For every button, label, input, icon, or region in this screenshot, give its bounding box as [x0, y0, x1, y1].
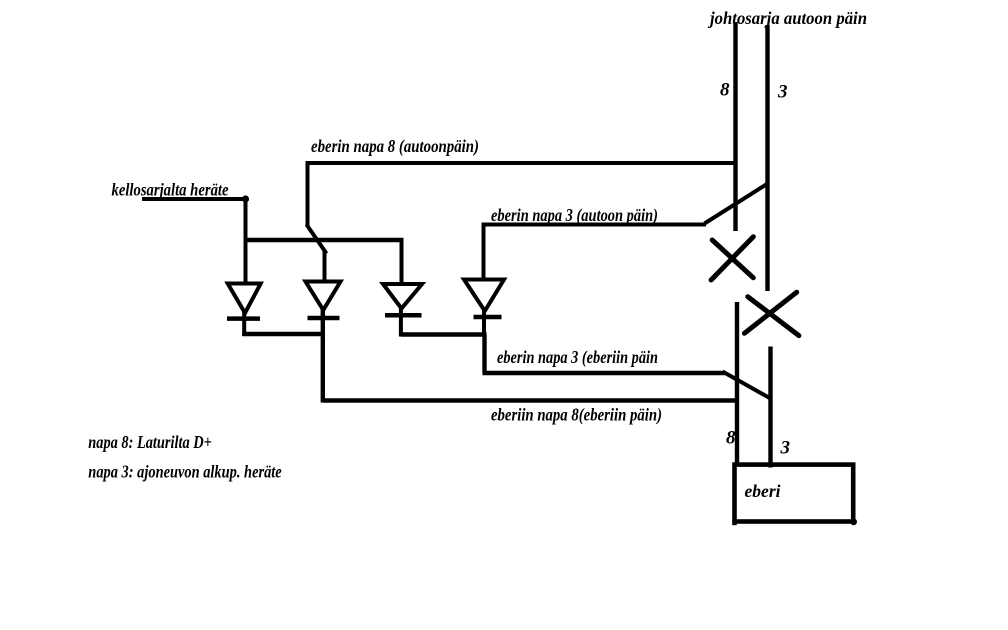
wire: pin 8 vertical lower segment [735, 302, 739, 466]
box corner nub bottom-left [732, 521, 736, 525]
wire: eberin napa 3 autoon horizontal [484, 223, 707, 227]
svg-text:8: 8 [726, 428, 736, 449]
svg-text:johtosarja autoon päin: johtosarja autoon päin [707, 8, 867, 28]
box: eberi heater unit [735, 465, 854, 522]
svg-text:napa 3: ajoneuvon alkup. herät: napa 3: ajoneuvon alkup. heräte [88, 462, 281, 482]
diode D1 cathode bar [227, 316, 260, 321]
wire: eberin napa 3 eberiin horizontal [483, 371, 726, 375]
wire: vertical from D4 link down to napa3 eberiin wire [482, 335, 486, 374]
diode D2 triangle [306, 282, 341, 311]
wire: switch diagonal up to pin 3 line [705, 183, 769, 224]
diode D3 triangle [383, 284, 422, 309]
svg-text:3: 3 [780, 438, 791, 459]
wire: diode D4 anode lead [482, 223, 486, 281]
diode D2 cathode bar [308, 316, 340, 321]
svg-text:napa 8: Laturilta D+: napa 8: Laturilta D+ [88, 432, 212, 452]
svg-text:eberin napa 8 (autoonpäin): eberin napa 8 (autoonpäin) [311, 136, 479, 157]
wire: switch diagonal down to pin 3 lower line [723, 372, 771, 399]
svg-text:eberin napa 3 (eberiin päin: eberin napa 3 (eberiin päin [497, 347, 658, 368]
wire: anode bus horizontal [244, 238, 404, 242]
svg-text:eberiin napa 8(eberiin päin): eberiin napa 8(eberiin päin) [491, 405, 662, 426]
diode D4 cathode bar [474, 315, 502, 320]
diode D2 cathode lead down to napa8 eberiin wire [321, 308, 325, 403]
diode D1 cathode lead [242, 311, 246, 336]
box corner blob bottom-right [850, 518, 857, 525]
svg-text:eberi: eberi [745, 481, 781, 501]
diode D1 triangle [228, 284, 261, 314]
wire: D3-D4 cathode link [401, 332, 487, 336]
wire: harness pin 8 vertical upper segment [733, 22, 737, 231]
diode D3 cathode lead [399, 306, 403, 337]
svg-text:8: 8 [720, 80, 730, 101]
wire: D1-D2 cathode link [242, 332, 323, 336]
wire: kellosarjalta heräte horizontal [142, 197, 246, 201]
diode D4 triangle [464, 280, 504, 312]
svg-text:kellosarjalta heräte: kellosarjalta heräte [112, 180, 229, 200]
diode D3 cathode bar [385, 313, 422, 318]
wire: harness pin 3 vertical upper segment [765, 25, 769, 291]
wire: diode D3 anode lead [400, 240, 404, 285]
wire: eberin napa 8 autoon horizontal [306, 161, 738, 165]
X mark on pin 8 line [711, 237, 753, 280]
diode D4 cathode lead [482, 309, 486, 337]
wire: pin 3 vertical lower segment [768, 347, 772, 468]
node: junction dot at heräte corner [242, 195, 249, 202]
wire: eberin napa 8 autoon vertical drop [306, 161, 310, 226]
wire: diode D1 anode lead vertical [244, 199, 248, 284]
wire: diode D2 anode lead [323, 251, 327, 282]
wire: eberiin napa 8 horizontal [323, 398, 738, 402]
svg-text:3: 3 [777, 82, 788, 103]
wire: switch diagonal to diode D2 [307, 225, 327, 254]
X mark on pin 3 line [744, 292, 799, 335]
